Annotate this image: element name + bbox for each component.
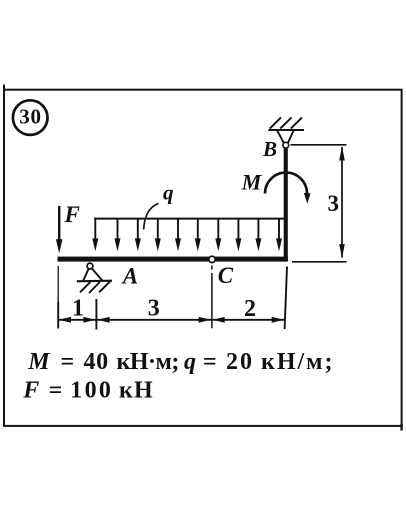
svg-text:M: M	[241, 170, 263, 195]
svg-text:30: 30	[19, 104, 42, 128]
svg-text:M=40кН·м;q=20кН/м;: M=40кН·м;q=20кН/м;	[27, 349, 334, 375]
beam AC (horizontal member)	[58, 257, 288, 262]
horizontal dimension line	[58, 317, 284, 323]
svg-text:q: q	[163, 181, 174, 205]
svg-text:2: 2	[244, 296, 256, 322]
extension line below support A	[95, 299, 97, 330]
moment M arc	[265, 173, 311, 204]
svg-text:3: 3	[148, 296, 160, 322]
hinge C	[209, 256, 215, 262]
force F arrow	[56, 206, 63, 253]
pin support A	[77, 263, 112, 293]
extension line below beam left end	[57, 266, 59, 329]
svg-text:C: C	[218, 263, 234, 288]
q leader line	[144, 204, 159, 230]
extension line below hinge C	[211, 266, 213, 329]
column to B (vertical member)	[284, 148, 288, 261]
figure frame	[4, 85, 402, 431]
vertical dimension line 3	[339, 146, 345, 258]
distributed load q top line	[94, 218, 286, 220]
svg-text:1: 1	[72, 295, 84, 321]
svg-text:B: B	[262, 137, 277, 161]
svg-text:3: 3	[328, 191, 340, 216]
extension line below beam right end	[285, 267, 287, 330]
dimension connector at beam right end	[292, 261, 347, 263]
pin support B ceiling	[269, 117, 305, 130]
svg-text:F=100кН: F=100кН	[22, 378, 154, 404]
problem number badge 30	[13, 100, 48, 135]
distributed load arrows	[92, 219, 282, 252]
dimension connector at B	[291, 144, 347, 146]
pin support B triangle	[277, 131, 293, 149]
svg-text:A: A	[121, 264, 138, 289]
svg-text:F: F	[64, 202, 80, 227]
